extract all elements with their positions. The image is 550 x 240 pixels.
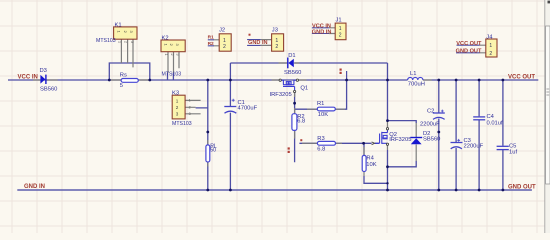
svg-text:C4: C4 (487, 114, 495, 120)
transistor Q1 IRF3205 (P-MOSFET horizontal) (281, 80, 296, 90)
J2 pins (214, 40, 220, 46)
Q1 lead pins (272, 80, 307, 97)
svg-text:D3: D3 (40, 68, 47, 74)
wire C2 branch x=438.8 (438, 80, 440, 190)
wire K3/RL branch x=207.8 (196, 80, 208, 190)
junction K1-bracket-right on VCC rail (148, 79, 151, 82)
resistor R1 body (317, 107, 335, 111)
svg-text:700uH: 700uH (408, 81, 425, 87)
diode D3 SB560 (40, 75, 46, 84)
svg-text:6.8: 6.8 (297, 119, 305, 125)
svg-text:2: 2 (223, 44, 226, 50)
svg-text:J1: J1 (336, 18, 342, 24)
svg-text:2: 2 (176, 105, 179, 110)
wire K2 pin stubs (168, 73, 174, 81)
R3 pins (302, 142, 342, 144)
svg-text:SB560: SB560 (284, 70, 301, 76)
resistor R4 body (362, 155, 366, 171)
svg-text:50: 50 (210, 148, 216, 154)
svg-text:IRF3205: IRF3205 (389, 137, 411, 143)
svg-text:1: 1 (164, 54, 168, 56)
wire D2 branch top (388, 121, 417, 123)
svg-text:2: 2 (339, 32, 342, 38)
svg-text:2: 2 (124, 41, 128, 43)
svg-text:2: 2 (170, 54, 174, 56)
wire Q2 source down (387, 150, 389, 190)
junction K1-bracket-left on VCC rail (108, 79, 111, 82)
junction R3/R4/Q2-gate node (362, 142, 365, 145)
Q2 gate arrow (372, 142, 375, 145)
svg-text:GND IN: GND IN (248, 40, 268, 46)
junction RL branch on GND rail (206, 189, 209, 192)
junction Q2 source / R4 return node (386, 182, 388, 184)
connector J1 (312, 23, 346, 40)
svg-text:MTS103: MTS103 (172, 121, 192, 127)
gray pin segments overlay (33, 28, 486, 176)
junction C2 branch on GND rail (437, 189, 440, 192)
svg-text:GND OUT: GND OUT (456, 49, 482, 55)
R4 pins (363, 147, 365, 176)
scrollbar track (545, 0, 550, 233)
wire Q1 gate chain x=294.6 (294, 92, 296, 162)
svg-text:MTS103: MTS103 (96, 38, 116, 44)
svg-text:J4: J4 (486, 34, 493, 40)
connector J2 (208, 34, 231, 51)
svg-text:10K: 10K (318, 112, 328, 118)
J4 pins (480, 45, 486, 53)
Q2 pins (387, 121, 389, 150)
resistor R3 body (317, 141, 335, 145)
svg-text:IRF3205: IRF3205 (270, 92, 292, 98)
junction Q2 drain chain on VCC rail (386, 79, 389, 82)
svg-text:3: 3 (176, 54, 180, 56)
svg-text:4700uF: 4700uF (238, 105, 258, 111)
svg-text:1: 1 (117, 41, 121, 43)
svg-text:R4: R4 (366, 156, 374, 162)
svg-text:R2: R2 (208, 41, 214, 47)
svg-text:1: 1 (275, 38, 278, 44)
svg-text:K2: K2 (162, 35, 169, 41)
capacitor C4 (473, 117, 485, 120)
net flag at J3 pin1 (249, 34, 251, 36)
svg-text:1: 1 (176, 98, 179, 103)
svg-text:0.01uf: 0.01uf (487, 120, 504, 126)
junction Q2 drain / D2 node (386, 119, 389, 122)
svg-text:1: 1 (223, 38, 226, 44)
svg-text:3: 3 (130, 41, 134, 43)
capacitor C1 polarized (224, 107, 236, 114)
Rs pins (109, 79, 150, 81)
svg-text:2: 2 (189, 105, 191, 109)
D3 pins (33, 79, 58, 81)
svg-text:GND IN: GND IN (24, 184, 45, 190)
svg-text:R3: R3 (317, 136, 324, 142)
svg-text:1: 1 (339, 26, 342, 32)
svg-text:1: 1 (189, 99, 191, 103)
svg-text:2: 2 (275, 44, 278, 50)
R2 pins (294, 108, 296, 139)
svg-text:3: 3 (176, 112, 179, 117)
svg-text:R1: R1 (208, 35, 214, 41)
junction C1 branch on GND rail (229, 189, 232, 192)
connector K2 MTS103 (161, 40, 185, 56)
resistor RL body (206, 145, 210, 162)
svg-text:SB560: SB560 (40, 86, 57, 92)
wire R4 bottom return (364, 176, 388, 183)
svg-text:VCC OUT: VCC OUT (508, 74, 535, 80)
junction C3 branch on GND rail (455, 189, 458, 192)
svg-text:C2: C2 (427, 109, 434, 115)
resistor R2 body (292, 114, 297, 131)
wire Q2 drain chain x=387.5 (387, 63, 389, 121)
connector K1 MTS103 (114, 27, 137, 43)
svg-text:5: 5 (120, 83, 123, 89)
svg-text:1: 1 (489, 43, 492, 49)
junction C4 branch on VCC rail (478, 79, 481, 82)
junction Q2 source chain on GND rail (386, 189, 389, 192)
transistor Q2 IRF3205 (N-MOSFET vertical) (375, 130, 388, 144)
diode D1 SB560 (288, 58, 294, 69)
diode D2 SB560 (410, 138, 422, 145)
wire R4 top (363, 143, 365, 155)
junction C5 branch on GND rail (502, 189, 505, 192)
svg-text:MTS103: MTS103 (162, 71, 182, 77)
svg-text:2: 2 (489, 51, 492, 57)
capacitor C3 polarized (451, 143, 463, 149)
D1 pins (279, 62, 300, 64)
junction C2 branch on VCC rail (437, 79, 440, 82)
svg-text:R1: R1 (317, 101, 324, 107)
capacitor C2 polarized (433, 113, 445, 119)
capacitor C5 (497, 146, 509, 149)
svg-text:1uf: 1uf (509, 149, 517, 155)
svg-text:L1: L1 (410, 71, 416, 77)
junction Q2 source / D2 return node (386, 165, 389, 168)
junction C4 branch on GND rail (478, 189, 481, 192)
J1 pins (329, 28, 335, 34)
connector K3 MTS103 (172, 95, 190, 119)
svg-text:6.8: 6.8 (317, 147, 325, 153)
svg-text:J3: J3 (272, 27, 278, 33)
wire C5 / right end branch x=502.9 (502, 80, 504, 190)
svg-text:Q1: Q1 (300, 85, 308, 91)
wire C4 branch x=479.1 (478, 80, 480, 190)
junction R1 riser on VCC rail (345, 79, 348, 82)
svg-text:K1: K1 (115, 22, 122, 28)
svg-text:SB560: SB560 (423, 137, 440, 143)
net flag at R3 left (300, 139, 302, 141)
C3 plus sign (457, 139, 460, 142)
wire R1 riser x=346.6 (335, 80, 346, 109)
wire main VCC rail y=80 (8, 79, 538, 81)
K1 pins (121, 39, 133, 67)
wire stub above rail at x=346.6 (346, 71, 348, 80)
wire C1 branch / D1 riser x=230.4 (229, 63, 231, 190)
connector J4 (456, 39, 497, 57)
net flag below R2 (288, 147, 290, 149)
junction C1/D1 branch on VCC rail (229, 79, 232, 82)
junction C3 branch on VCC rail (455, 79, 458, 82)
svg-text:10K: 10K (366, 162, 376, 168)
C2 plus sign (441, 110, 444, 113)
wire GND bottom rail y=190 (17, 189, 532, 191)
C1 plus sign (232, 99, 235, 102)
svg-text:GND OUT: GND OUT (508, 185, 536, 191)
wire D2 bottom return (388, 161, 417, 167)
wire R3 line y=143.3 (299, 142, 379, 144)
net flag near x=346 stub (340, 69, 342, 71)
J3 pins (261, 40, 272, 46)
svg-text:J2: J2 (219, 27, 225, 33)
svg-text:3: 3 (189, 112, 191, 116)
RL pins (207, 140, 209, 167)
svg-text:D1: D1 (288, 53, 295, 59)
svg-text:VCC IN: VCC IN (18, 75, 38, 81)
svg-text:2200uF: 2200uF (420, 121, 440, 127)
svg-text:Rs: Rs (120, 73, 127, 79)
wire C3 branch x=456.1 (455, 80, 457, 190)
resistor Rs body (121, 79, 138, 83)
inductor L1 (408, 77, 423, 80)
junction C5 branch on VCC rail (502, 79, 505, 82)
junction Q1 gate node (293, 102, 296, 105)
svg-text:VCC OUT: VCC OUT (456, 41, 482, 47)
R1 pins (307, 108, 345, 110)
K2 pins (168, 52, 179, 73)
junction C2 negative pin node (437, 131, 440, 134)
junction K3 branch / RL top node (206, 131, 209, 134)
D2 pins (415, 123, 417, 161)
wire R1 horizontal y=109.2 (295, 108, 318, 110)
L1 right lead (423, 79, 432, 81)
svg-text:K3: K3 (172, 90, 179, 96)
wire D1 bypass top y=63 (230, 62, 387, 64)
svg-text:2200uF: 2200uF (464, 144, 484, 150)
svg-text:GND IN: GND IN (312, 29, 332, 35)
junction K3/RL branch on VCC rail (206, 79, 209, 82)
connector J3 (247, 34, 284, 51)
wire K1 bracket (109, 63, 150, 80)
K3 pins (185, 100, 201, 113)
